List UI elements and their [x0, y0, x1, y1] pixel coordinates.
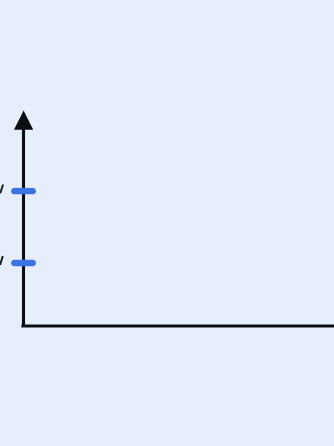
tick label fragment (lower, cut-off letter stroke) [0, 256, 3, 265]
y-axis [22, 114, 25, 328]
x-axis [21, 324, 334, 327]
tick mark (lower, blue pill) [11, 260, 36, 266]
tick label fragment (upper, cut-off letter stroke) [0, 185, 3, 194]
y-axis arrowhead [14, 111, 33, 130]
tick mark (upper, blue pill) [11, 188, 36, 194]
